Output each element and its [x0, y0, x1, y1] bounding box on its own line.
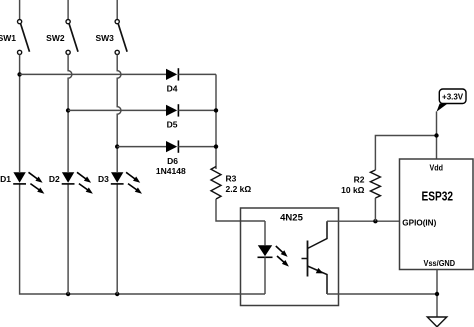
LED D2 arrows	[77, 172, 93, 193]
svg-text:SW2: SW2	[46, 33, 65, 43]
svg-text:Vss/GND: Vss/GND	[424, 258, 456, 268]
power +3.3V callout	[437, 89, 467, 112]
wire D2 column to bottom bus	[67, 184, 69, 294]
wire SW3 column down to D3 (hops over bus1, bus2)	[117, 55, 121, 173]
wire D6 cathode to right bus	[178, 146, 216, 148]
wire bus3 to D6 anode	[117, 146, 166, 148]
diode D5	[166, 104, 178, 116]
opto LED cathode wire	[264, 257, 266, 294]
node junction bus-D5	[214, 108, 218, 112]
wire R2 bottom to GPIO node	[374, 198, 376, 221]
node junction SW2-bus2	[66, 108, 70, 112]
switch SW1	[18, 20, 30, 55]
wire SW2 column down to D2 (hop over bus1)	[68, 55, 72, 173]
diode D4	[166, 68, 178, 80]
svg-text:1N4148: 1N4148	[156, 166, 186, 176]
wire D5 cathode to right bus	[178, 109, 216, 111]
LED D3	[111, 172, 124, 184]
optocoupler U1 4N25 box	[241, 208, 339, 306]
switch SW2	[66, 20, 78, 55]
node junction bus-D6	[214, 144, 218, 148]
svg-text:D1: D1	[0, 174, 11, 184]
node junction R2-GPIO	[373, 219, 377, 223]
switch SW3	[115, 20, 127, 55]
wire opto emitter to ground node	[327, 293, 437, 295]
wire D3 column to bottom bus	[116, 184, 118, 294]
wire SW3 top feed	[116, 0, 118, 19]
wire bus1 to D4 anode	[20, 73, 166, 75]
LED D3 arrows	[126, 172, 142, 193]
svg-text:4N25: 4N25	[280, 212, 303, 223]
wire SW1 top feed	[19, 0, 21, 19]
node junction D2-bus	[66, 292, 70, 296]
opto LED anode wire	[264, 221, 266, 245]
svg-text:SW3: SW3	[95, 33, 114, 43]
wire R2 top to +3.3V node	[375, 136, 436, 171]
svg-text:D4: D4	[167, 84, 178, 94]
wire R3 to opto LED	[216, 199, 265, 221]
wire right vertical bus	[215, 74, 217, 169]
wire Vss/GND down	[436, 270, 438, 318]
opto phototransistor	[302, 221, 328, 294]
svg-text:+3.3V: +3.3V	[442, 93, 464, 102]
wire opto collector to GPIO	[327, 220, 400, 222]
resistor R3	[211, 167, 221, 200]
LED D1	[13, 172, 26, 184]
IC U2 ESP32 box	[400, 159, 474, 270]
opto emitter arrowhead	[316, 268, 323, 274]
svg-text:10 kΩ: 10 kΩ	[341, 185, 365, 195]
wire SW2 top feed	[67, 0, 69, 19]
wire D4 cathode to right bus	[178, 73, 216, 75]
node junction SW1-bus1	[17, 72, 21, 76]
node junction emitter-Vss	[435, 292, 439, 296]
svg-text:Vdd: Vdd	[430, 163, 444, 173]
wire +3.3V to Vdd	[436, 112, 438, 160]
ground	[427, 317, 447, 327]
node junction SW3-bus3	[115, 144, 119, 148]
svg-text:D2: D2	[49, 174, 60, 184]
wire LED bottom bus	[20, 184, 265, 294]
node junction 3.3V-R2	[434, 133, 438, 137]
LED D2	[62, 172, 75, 184]
LED D1 arrows	[29, 172, 45, 193]
wire bus2 to D5 anode	[68, 109, 166, 111]
svg-text:R3: R3	[226, 174, 237, 184]
svg-text:R2: R2	[354, 175, 365, 185]
opto LED	[258, 245, 273, 257]
svg-text:GPIO(IN): GPIO(IN)	[402, 217, 436, 227]
opto LED light arrows	[276, 246, 289, 267]
node junction D3-bus	[115, 292, 119, 296]
svg-text:D6: D6	[167, 156, 178, 166]
wire SW1 column down to D1	[19, 55, 21, 173]
svg-text:D5: D5	[167, 120, 178, 130]
diode D6	[166, 140, 178, 152]
svg-text:2.2 kΩ: 2.2 kΩ	[226, 184, 252, 194]
resistor R2	[370, 170, 380, 198]
svg-text:ESP32: ESP32	[422, 190, 454, 204]
svg-text:SW1: SW1	[0, 33, 16, 43]
svg-text:D3: D3	[98, 174, 109, 184]
